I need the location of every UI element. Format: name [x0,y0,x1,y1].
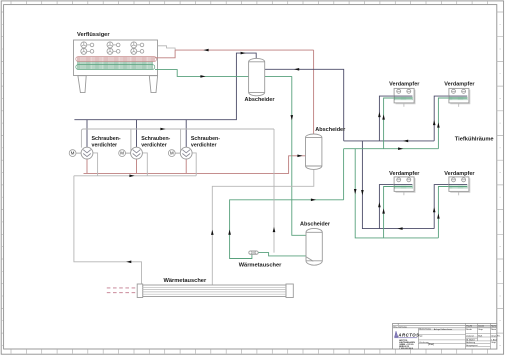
svg-text:Wärmetauscher: Wärmetauscher [164,278,207,284]
wire gray oil return header under compressors [74,175,196,177]
compressor V2 (Schraubenverdichter) [131,147,143,159]
svg-text:Gepr.: Gepr. [491,342,496,344]
svg-text:Anlage Kälteschema: Anlage Kälteschema [434,328,453,331]
condenser left leg [78,76,86,93]
svg-text:Tiefkühlräume: Tiefkühlräume [455,136,494,142]
arrow green pointing right at y76 [200,75,205,78]
arrow navy riser W3 up [378,202,381,207]
svg-text:Name: Name [491,325,497,327]
svg-text:Verdampfer: Verdampfer [389,82,420,88]
heat exchanger E1 tubes [143,287,286,294]
svg-text:Abscheider: Abscheider [300,221,331,227]
arrow dark pointing right on gray header y176 [129,175,134,178]
svg-text:Verflüssiger: Verflüssiger [77,32,110,38]
arrow green riser W4 up [437,213,440,218]
svg-text:verdichter: verdichter [191,143,217,149]
arrow green pointing right at y200 [311,199,316,202]
wire navy return main from evaporators to separator [265,69,344,141]
wire green recirculation loop to small heat exchanger [230,200,344,259]
wire green from small heat exchanger into separator 3 [258,253,306,256]
svg-text:Urspr. Ers.: Urspr. Ers. [491,335,501,337]
arrow green riser W1 up [382,114,385,119]
svg-text:Verdampfer: Verdampfer [444,171,475,177]
wire red hot gas header (oil separator to condenser) [175,49,314,51]
condenser fan F5 with motor [107,48,120,54]
svg-text:Ausgangsort: Ausgangsort [466,344,478,347]
svg-text:Änderung: Änderung [466,341,475,344]
svg-text:Abscheider: Abscheider [245,97,276,103]
arrow up on x274 vertical [273,227,276,232]
condenser liquid coil (green) [76,65,155,70]
svg-text:Schrauben-: Schrauben- [92,136,121,142]
svg-text:Abscheider: Abscheider [315,127,346,133]
wire gray oil drop compressor V2 [130,129,132,153]
wire red drop into oil separator top [313,50,315,134]
wire navy riser into evaporator W1 [379,96,412,141]
wire red dashed external line 2 at heat exchanger [107,292,137,294]
arrow green up at x229 [228,230,231,235]
company logo sail [395,331,398,337]
wire navy suction drop compressor V2 [136,120,138,148]
arrow navy into separator dome pointing right [241,52,246,55]
condenser right leg [149,76,157,93]
evaporator W4 (Verdampfer) [449,177,470,195]
wire green riser into evaporator W3 [384,187,413,238]
svg-text:Bl. Blätter: Bl. Blätter [466,338,475,341]
svg-text:Verdampfer: Verdampfer [389,171,420,177]
wire gray oil stub compressor V2 [142,153,147,176]
svg-text:Schrauben-: Schrauben- [191,136,220,142]
arrow green pointing down on long vertical [291,115,294,120]
arrow green on inter-group vertical [354,189,357,194]
svg-text:Wärmetauscher: Wärmetauscher [239,263,282,269]
svg-text:verdichter: verdichter [141,143,167,149]
wire navy suction header from separator to compressors [74,53,256,120]
arrow navy pointing left on top group header [403,140,408,143]
wire navy riser into evaporator W4 [434,185,467,229]
wire green supply rise from pump loop [343,149,345,200]
wire green supply header top evaporator group [344,148,439,150]
svg-text:M: M [170,151,174,156]
wire red discharge drop compressor V2 [136,159,138,174]
wire green riser into evaporator W1 [384,98,413,149]
arrow navy riser W1 up [378,112,381,117]
wire gray oil drop compressor V3 [180,129,182,153]
wire red hot gas: condenser coil stub [155,50,175,58]
arrow green riser W2 up [437,122,440,127]
condenser inlet nozzle steps [158,46,176,50]
separator vessel B2 Abscheider (oil separator) [306,134,322,169]
svg-text:Zustand: Zustand [466,334,473,337]
wire navy return header top evaporator group [344,140,435,142]
svg-text:M: M [71,151,75,156]
condenser body casing [74,40,158,76]
arrow dark pointing left on gray line y262 [126,261,131,264]
arrow red into oil separator pointing right [297,155,302,158]
svg-text:verdichter: verdichter [92,143,118,149]
evaporator W2 (Verdampfer) [449,88,470,106]
arrow green pointing right on top supply header [398,147,403,150]
svg-text:Gepr.: Gepr. [478,329,483,331]
wire green riser into evaporator W2 [438,98,467,149]
svg-text:M: M [120,151,124,156]
svg-text:ARCTOS: ARCTOS [397,333,419,338]
svg-text:Datum: Datum [478,324,484,327]
separator vessel B3 Abscheider [306,228,322,265]
compressor V1 (Schraubenverdichter) [81,147,93,159]
arrow green riser W3 up [382,208,385,213]
arrow navy riser W2 up [433,120,436,125]
motor M1 [69,150,81,157]
svg-text:T 030 000 000 0: T 030 000 000 0 [399,348,413,350]
wire red discharge drop compressor V1 [86,159,88,174]
condenser hot-gas coil (red) [76,57,157,62]
title block outline [393,323,497,349]
condenser fan F1 with motor [81,42,94,48]
wire gray oil stub compressor V1 [93,153,98,176]
condenser fan F3 with motor [131,42,144,48]
condenser fan F4 with motor [81,48,94,54]
wire green liquid down to separator 3 [292,76,307,235]
svg-text:Bearb.: Bearb. [466,329,472,331]
wire red discharge drop compressor V3 [185,159,187,174]
heat exchanger E1 shell and tube [137,284,293,298]
wire gray oil drain separator 2 to heat exchanger [212,170,313,285]
arrow on red header pointing left [203,49,208,52]
separator vessel B1 Abscheider [249,58,265,95]
wire green liquid line from condenser [155,70,292,77]
wire green riser into evaporator W4 [438,187,467,238]
wire navy riser into evaporator W2 [434,96,467,141]
arrow up on x212 vertical [211,230,214,235]
svg-text:Rev. Zeichnung: Rev. Zeichnung [393,326,406,328]
wire navy suction drop compressor V1 [86,120,88,148]
svg-text:Zeichnung: Zeichnung [419,342,428,344]
arrow navy return pointing left at y69 [294,68,299,71]
wire navy down-feed and return header lower evaporator group [362,141,434,229]
condenser coil hatch comb [77,61,152,69]
evaporator W3 (Verdampfer) [394,177,415,195]
evaporator W1 (Verdampfer) [394,88,415,106]
wire navy suction drop compressor V3 [185,120,187,148]
svg-text:[Dat]: [Dat] [428,342,434,346]
wire navy riser into evaporator W3 [379,185,412,229]
compressor V3 (Schraubenverdichter) [180,147,192,159]
svg-text:Norm: Norm [491,329,496,331]
svg-text:Verdampfer: Verdampfer [444,82,475,88]
condenser fan F6 with motor [131,48,144,54]
svg-text:Schrauben-: Schrauben- [141,136,170,142]
svg-text:1 Blatt: 1 Blatt [491,338,497,341]
svg-text:Bezeichnung: Bezeichnung [419,329,431,331]
arrow navy on inter-group vertical [361,190,364,195]
wire gray down to small heat exchanger [273,129,275,253]
arrow dark pointing right on oil line y129 [160,128,165,131]
wire gray oil stub compressor V3 [192,153,196,176]
wire gray oil line down-left to heat exchanger [74,176,142,284]
wire green supply lower evaporator group [355,149,438,238]
svg-text:Prg.Nr: Prg.Nr [466,325,472,327]
arrow navy pointing left on lower group header [397,227,402,230]
condenser fan F2 with motor [107,42,120,48]
motor M3 [168,150,180,157]
wire gray oil line over compressors [81,129,274,148]
small heat exchanger E2 [249,251,258,254]
wire red dashed external line 1 at heat exchanger [107,287,137,289]
arrow navy riser W4 up [433,207,436,212]
wire red compressor discharge header [84,156,306,174]
motor M2 [119,150,131,157]
